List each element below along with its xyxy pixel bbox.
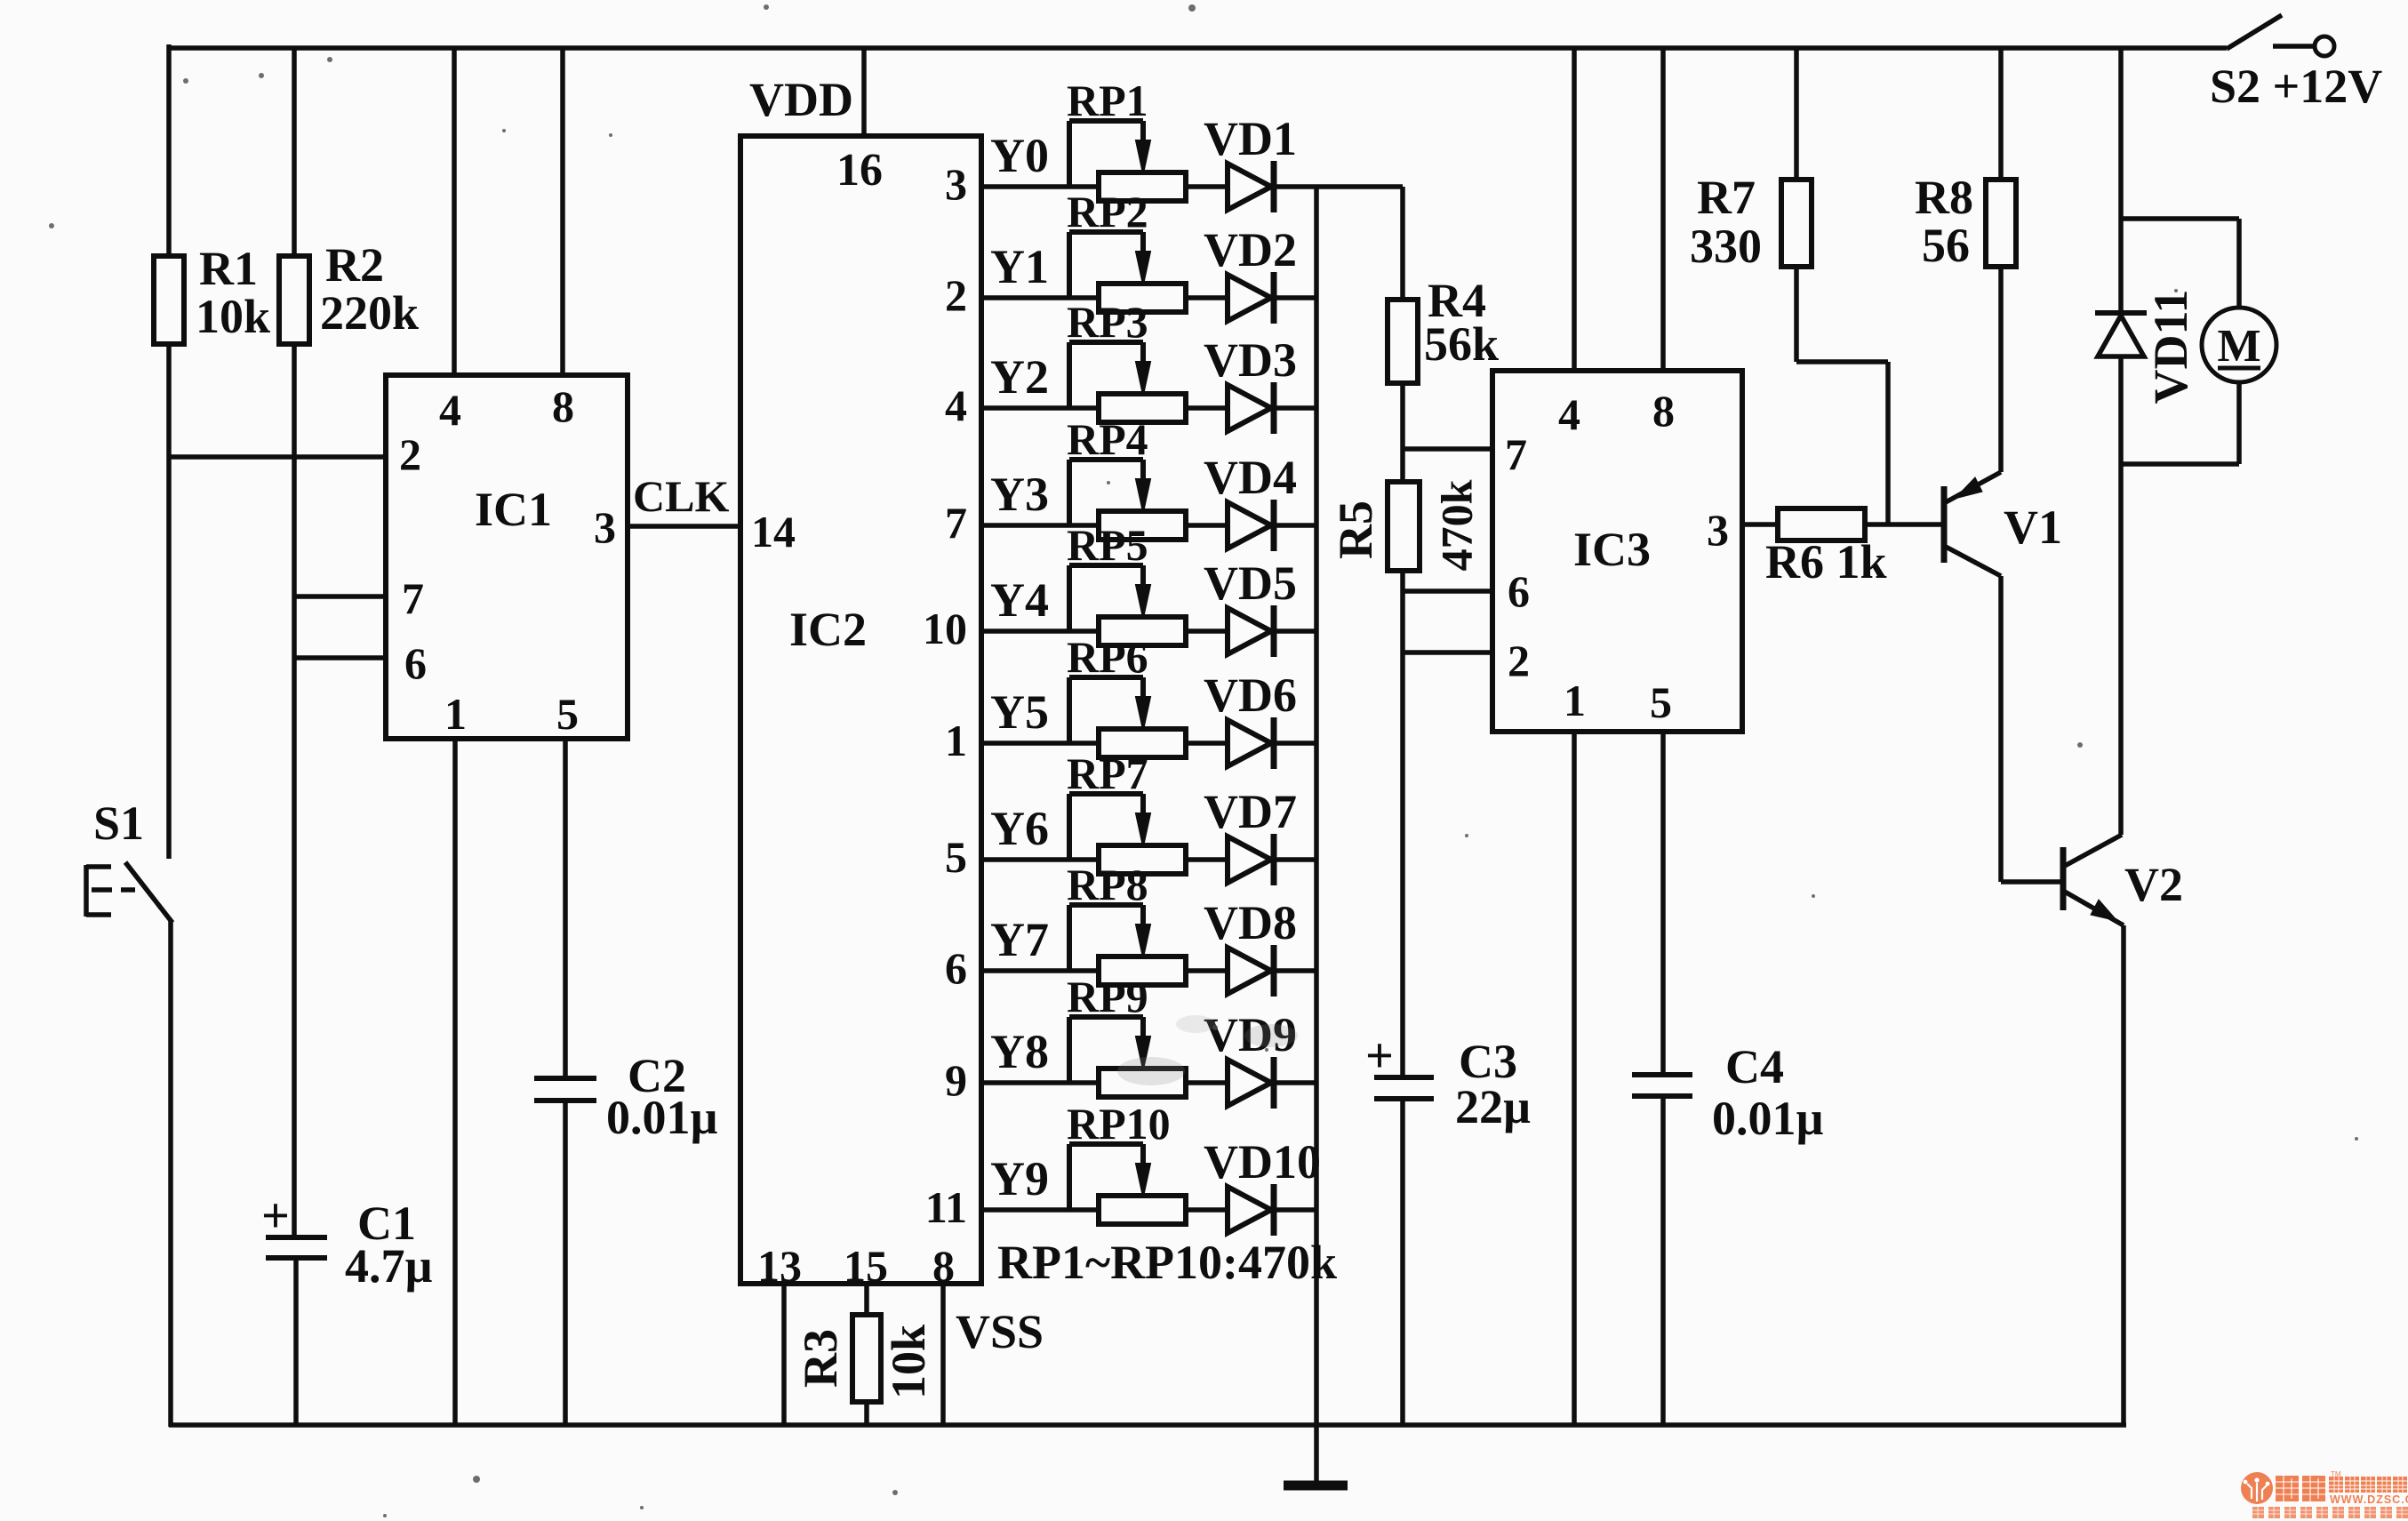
diode VD10	[1228, 1187, 1271, 1233]
svg-text:7: 7	[402, 573, 424, 623]
svg-text:2: 2	[399, 429, 421, 479]
IC IC3	[1492, 371, 1742, 732]
transistor V1	[1941, 486, 1948, 563]
svg-text:VD11: VD11	[2144, 289, 2197, 404]
svg-text:VD7: VD7	[1204, 785, 1297, 838]
diode VD8	[1228, 948, 1271, 994]
svg-text:4.7µ: 4.7µ	[345, 1239, 433, 1293]
wire diode cathode bus	[1314, 187, 1319, 1425]
svg-text:RP2: RP2	[1067, 187, 1148, 236]
svg-text:10k: 10k	[882, 1325, 935, 1399]
svg-text:5: 5	[556, 689, 579, 739]
svg-text:15: 15	[844, 1241, 888, 1291]
wire IC1 pin5 down	[563, 739, 568, 1078]
svg-text:S1: S1	[93, 797, 144, 850]
svg-text:Y3: Y3	[990, 468, 1049, 521]
capacitor C1	[266, 1235, 327, 1240]
svg-text:R3: R3	[794, 1329, 847, 1388]
svg-text:3: 3	[945, 159, 967, 209]
svg-text:M: M	[2217, 321, 2260, 372]
svg-text:8: 8	[552, 381, 574, 431]
diode VD1	[1228, 164, 1271, 210]
svg-text:16: 16	[836, 145, 883, 196]
svg-text:VD4: VD4	[1204, 451, 1297, 504]
svg-text:RP4: RP4	[1067, 414, 1148, 464]
svg-text:4: 4	[439, 385, 461, 435]
svg-text:VD8: VD8	[1204, 896, 1297, 949]
capacitor C3	[1374, 1075, 1434, 1080]
IC IC1	[386, 375, 628, 739]
potentiometer RP5	[1099, 617, 1186, 645]
svg-text:220k: 220k	[320, 286, 419, 340]
wire motor top branch	[2121, 216, 2239, 221]
wire V1 collector to V2 base	[2001, 879, 2060, 885]
watermark logo	[2241, 1472, 2273, 1504]
svg-text:10: 10	[923, 604, 967, 653]
wire VD1 row to R4 branch	[1316, 184, 1403, 189]
svg-text:RP5: RP5	[1067, 520, 1148, 570]
svg-text:R7: R7	[1697, 171, 1756, 224]
resistor R7	[1794, 46, 1799, 180]
diode VD3	[1228, 385, 1271, 431]
wire IC1 pin7	[294, 594, 386, 599]
svg-text:R6 1k: R6 1k	[1765, 535, 1887, 588]
wire IC2 pin2 Y1	[981, 295, 1099, 300]
ground	[1314, 1425, 1319, 1485]
wire pin2 node down to C3	[1400, 652, 1405, 1077]
wire IC3 pin5 down	[1660, 732, 1666, 1075]
wire IC2 pin5 Y6	[981, 857, 1099, 862]
svg-text:Y9: Y9	[990, 1152, 1049, 1205]
wire IC2 pin9 Y8	[981, 1080, 1099, 1085]
diode VD6	[1228, 720, 1271, 766]
resistor R6	[1778, 508, 1865, 540]
potentiometer RP6	[1099, 729, 1186, 757]
potentiometer RP10	[1099, 1196, 1186, 1224]
svg-text:WWW.DZSC.COM: WWW.DZSC.COM	[2330, 1493, 2408, 1506]
svg-text:5: 5	[1650, 677, 1672, 727]
wire IC2 pin6 Y7	[981, 968, 1099, 973]
svg-text:470k: 470k	[1432, 479, 1482, 571]
svg-text:Y6: Y6	[990, 802, 1049, 855]
svg-text:7: 7	[1505, 429, 1527, 479]
svg-text:R1: R1	[199, 242, 258, 295]
wire IC1 pin4 to rail	[452, 46, 457, 375]
svg-text:Y8: Y8	[990, 1025, 1049, 1078]
diode VD2	[1228, 275, 1271, 321]
svg-text:R5: R5	[1329, 500, 1382, 559]
svg-text:RP1: RP1	[1067, 76, 1148, 125]
svg-text:+: +	[1365, 1029, 1394, 1084]
resistor R5	[1400, 449, 1405, 482]
svg-text:Y5: Y5	[990, 685, 1049, 739]
wire left rail mid segment	[166, 344, 172, 859]
wire IC3 pin8 to rail	[1660, 46, 1666, 371]
wire IC3 pin7	[1403, 446, 1492, 452]
potentiometer RP7	[1099, 845, 1186, 874]
svg-text:22µ: 22µ	[1455, 1080, 1531, 1133]
svg-text:RP7: RP7	[1067, 748, 1148, 798]
wire VD11 branch lower to V2 collector	[2118, 464, 2124, 835]
wire IC2 pin8 VSS down	[940, 1284, 946, 1427]
wire IC3 pin3 out	[1742, 522, 1778, 527]
svg-text:14: 14	[751, 507, 796, 556]
potentiometer RP9	[1099, 1069, 1186, 1097]
resistor R3	[852, 1315, 881, 1402]
wire IC2 pin11 Y9	[981, 1207, 1099, 1213]
svg-text:RP1~RP10:470k: RP1~RP10:470k	[997, 1236, 1337, 1289]
switch S2	[2227, 15, 2282, 49]
svg-text:56k: 56k	[1424, 317, 1499, 371]
wire IC1 pin6	[294, 655, 386, 660]
wire IC3 pin4 to rail	[1572, 46, 1577, 371]
wire IC2 pin7 Y3	[981, 523, 1099, 528]
potentiometer RP8	[1099, 957, 1186, 985]
svg-text:13: 13	[757, 1241, 802, 1291]
svg-text:Y1: Y1	[990, 240, 1049, 293]
svg-text:VD6: VD6	[1204, 668, 1297, 722]
wire VDD IC2 pin16 to rail	[861, 46, 867, 136]
potentiometer RP2	[1099, 284, 1186, 312]
svg-text:VDD: VDD	[749, 73, 853, 126]
potentiometer RP4	[1099, 511, 1186, 540]
svg-text:1: 1	[1564, 676, 1586, 725]
IC IC2	[740, 136, 981, 1284]
svg-text:8: 8	[1652, 386, 1675, 436]
svg-text:RP3: RP3	[1067, 297, 1148, 347]
svg-text:3: 3	[594, 502, 616, 552]
switch S1	[125, 862, 172, 923]
svg-text:Y0: Y0	[990, 129, 1049, 182]
svg-text:TM: TM	[2331, 1470, 2341, 1478]
svg-text:9: 9	[945, 1055, 967, 1105]
svg-text:IC3: IC3	[1573, 523, 1651, 576]
capacitor C2	[534, 1076, 596, 1081]
svg-text:7: 7	[945, 498, 967, 548]
resistor R1	[154, 256, 184, 344]
wire IC1 pin2	[169, 454, 386, 460]
svg-text:C4: C4	[1725, 1040, 1784, 1093]
svg-text:R2: R2	[325, 238, 384, 292]
diode VD11	[2095, 310, 2147, 316]
potentiometer RP1	[1099, 172, 1186, 201]
wire IC3 pin6	[1403, 588, 1492, 594]
svg-text:VD5: VD5	[1204, 556, 1297, 610]
svg-text:RP6: RP6	[1067, 632, 1148, 682]
wire bottom ground rail	[169, 1422, 2126, 1428]
svg-text:3: 3	[1707, 505, 1729, 555]
wire IC2 pin3 Y0	[981, 184, 1099, 189]
svg-text:VSS: VSS	[956, 1305, 1044, 1358]
svg-text:Y7: Y7	[990, 913, 1049, 966]
svg-text:8: 8	[932, 1241, 955, 1291]
svg-text:CLK: CLK	[633, 471, 729, 521]
wire IC1 pin1 down	[452, 739, 458, 1427]
svg-text:RP8: RP8	[1067, 860, 1148, 909]
svg-text:+: +	[261, 1189, 290, 1244]
svg-text:2: 2	[1508, 636, 1530, 685]
svg-text:11: 11	[925, 1182, 967, 1232]
wire left rail upper segment	[166, 44, 172, 256]
svg-text:6: 6	[945, 943, 967, 993]
svg-text:10k: 10k	[196, 290, 270, 343]
svg-text:5: 5	[945, 832, 967, 882]
svg-text:2: 2	[945, 270, 967, 320]
svg-text:VD3: VD3	[1204, 333, 1297, 387]
svg-text:4: 4	[1558, 389, 1580, 439]
svg-text:RP10: RP10	[1067, 1099, 1171, 1149]
diode VD4	[1228, 502, 1271, 548]
diode VD5	[1228, 608, 1271, 654]
potentiometer RP3	[1099, 394, 1186, 422]
svg-text:0.01µ: 0.01µ	[606, 1091, 718, 1144]
wire CLK IC1 pin3 to IC2 pin14	[628, 524, 740, 529]
svg-text:VD10: VD10	[1204, 1135, 1321, 1189]
svg-text:RP9: RP9	[1067, 972, 1148, 1021]
resistor R4	[1400, 187, 1405, 300]
svg-text:Y2: Y2	[990, 350, 1049, 404]
transistor V2	[2060, 847, 2067, 910]
svg-text:4: 4	[945, 380, 967, 430]
wire IC2 pin10 Y4	[981, 628, 1099, 634]
svg-text:56: 56	[1922, 219, 1970, 272]
svg-text:1: 1	[444, 689, 467, 739]
wire R5 to pin2 node	[1400, 591, 1405, 652]
wire IC3 pin2	[1403, 650, 1492, 655]
resistor R8	[1998, 46, 2004, 180]
wire motor bottom branch	[2236, 383, 2242, 464]
svg-text:Y4: Y4	[990, 573, 1049, 627]
svg-text:IC2: IC2	[789, 603, 867, 656]
wire IC1 pin8 to rail	[560, 46, 565, 375]
svg-text:V1: V1	[2004, 500, 2062, 554]
wire IC2 pin1 Y5	[981, 740, 1099, 746]
svg-text:6: 6	[1508, 566, 1530, 616]
svg-text:V2: V2	[2124, 858, 2183, 911]
diode VD9	[1228, 1060, 1271, 1106]
wire top +12V rail	[169, 45, 2227, 51]
svg-text:S2 +12V: S2 +12V	[2210, 60, 2382, 113]
svg-text:6: 6	[404, 638, 427, 688]
motor M	[2202, 308, 2276, 382]
wire IC2 pin13 down	[781, 1284, 787, 1427]
svg-text:1: 1	[945, 716, 967, 765]
wire IC3 pin1 down	[1572, 732, 1577, 1427]
svg-text:0.01µ: 0.01µ	[1712, 1092, 1824, 1145]
diode VD7	[1228, 837, 1271, 883]
svg-text:VD2: VD2	[1204, 223, 1297, 276]
wire VD11 branch upper	[2118, 46, 2124, 313]
svg-text:IC1: IC1	[475, 483, 552, 536]
svg-text:VD1: VD1	[1204, 112, 1297, 165]
wire IC2 pin4 Y2	[981, 405, 1099, 411]
capacitor C4	[1632, 1072, 1692, 1077]
resistor R2	[279, 256, 309, 344]
svg-text:R8: R8	[1915, 171, 1973, 224]
svg-text:330: 330	[1690, 220, 1762, 273]
wire left rail lower segment	[168, 921, 173, 1427]
